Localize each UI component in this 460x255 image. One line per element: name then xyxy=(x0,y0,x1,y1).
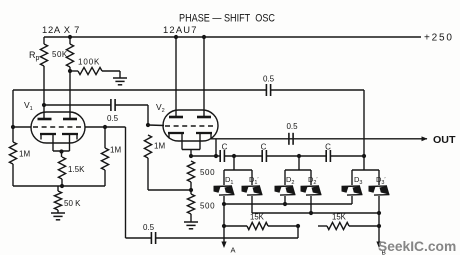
V1 grid dashed xyxy=(33,126,83,128)
svg-text:15K: 15K xyxy=(250,213,265,222)
wire D1 to A bus xyxy=(223,196,225,204)
wire D1p to B bus xyxy=(251,196,253,213)
capacitor C2 xyxy=(262,150,266,162)
label 50K cathode xyxy=(64,199,81,208)
V2 plate a xyxy=(169,35,183,117)
arrow node B xyxy=(376,242,385,255)
label 15K left xyxy=(250,213,265,222)
wire D2 to A bus xyxy=(283,196,287,206)
V2 cathode b xyxy=(196,133,212,150)
svg-text:SeekIC.com: SeekIC.com xyxy=(378,239,456,254)
wire bottom to 15K mid xyxy=(126,226,299,238)
label C2 xyxy=(261,143,267,152)
resistor 1.5K xyxy=(58,157,65,186)
wire A vertical xyxy=(222,204,226,243)
label tube 12AX7 xyxy=(42,24,80,35)
diode D1p xyxy=(242,186,263,195)
wire feedback top xyxy=(13,90,364,170)
svg-text:C: C xyxy=(325,143,331,152)
svg-text:A: A xyxy=(231,246,236,255)
svg-text:50 K: 50 K xyxy=(64,199,81,208)
resistor 1M grid b xyxy=(101,127,108,186)
resistor 50K cathode xyxy=(54,186,61,213)
tube V1 envelope xyxy=(31,112,85,143)
resistor 500 upper xyxy=(187,161,194,190)
label +250 xyxy=(424,33,454,44)
ground for 50K xyxy=(51,213,65,220)
svg-text:500: 500 xyxy=(200,168,215,177)
svg-text:500: 500 xyxy=(200,202,215,211)
resistor 100K xyxy=(70,67,120,74)
label D2p xyxy=(308,175,317,186)
arrow OUT xyxy=(422,136,428,141)
label 1.5K xyxy=(68,165,85,174)
wire cathode bus xyxy=(13,185,105,187)
wire V1 grid-b down xyxy=(125,127,127,238)
V2 grid dashed xyxy=(165,125,216,127)
label 15K right xyxy=(332,213,347,222)
wire bridge D2 xyxy=(285,156,311,185)
label C1 xyxy=(222,143,228,152)
capacitor 0.5 feedback xyxy=(266,84,270,96)
svg-text:1M: 1M xyxy=(110,146,121,155)
label tube 12AU7 xyxy=(163,24,198,35)
wire bridge D1 xyxy=(224,156,252,185)
wire bridge D3 xyxy=(352,170,379,185)
V1 plate a xyxy=(38,105,52,119)
node ladder 1 xyxy=(232,154,236,158)
tube V2 envelope xyxy=(163,110,218,141)
label 500 lower xyxy=(200,202,215,211)
label D3p xyxy=(376,175,385,186)
V2 plate b xyxy=(197,35,211,117)
wire cap to V2 grid xyxy=(115,105,148,125)
V1 cathode a xyxy=(40,134,56,151)
wire 1M to 500 junction xyxy=(148,189,191,191)
wire B vertical xyxy=(377,213,381,243)
svg-text:100K: 100K xyxy=(78,58,100,67)
svg-text:12AU7: 12AU7 xyxy=(163,24,198,35)
node ladder 3 xyxy=(362,154,366,158)
svg-text:+250: +250 xyxy=(424,33,454,44)
label D1p xyxy=(249,175,258,186)
svg-text:1M: 1M xyxy=(19,150,30,159)
V1 grid lead left xyxy=(11,125,31,129)
capacitor 0.5 output xyxy=(289,133,293,145)
node V2 grid xyxy=(146,123,150,127)
svg-text:PHASE — SHIFT OSC: PHASE — SHIFT OSC xyxy=(179,13,275,25)
resistor 500 lower xyxy=(187,190,194,222)
node 15K mid xyxy=(296,224,300,228)
V1 cathode b xyxy=(62,134,78,151)
ground for 100K xyxy=(113,71,127,85)
node plate V1a / junction xyxy=(42,103,46,107)
node cathode tap xyxy=(189,154,193,158)
label 0.5 bottom xyxy=(143,223,155,232)
wire plate V1a to cap xyxy=(44,104,111,106)
svg-text:C: C xyxy=(222,143,228,152)
label 1M b xyxy=(110,146,121,155)
wire OUT drop xyxy=(214,139,218,158)
resistor 15K left xyxy=(247,222,268,229)
V2 grid lead xyxy=(148,124,164,127)
label D2 xyxy=(286,175,294,186)
label Rp xyxy=(29,50,40,62)
svg-text:1M: 1M xyxy=(154,142,165,151)
V2 cathode common xyxy=(182,150,200,157)
ground for 500 xyxy=(184,222,198,229)
V1 cathode common xyxy=(53,149,70,157)
label 1M c xyxy=(154,142,165,151)
label C3 xyxy=(325,143,331,152)
node 500 junction xyxy=(189,188,193,192)
wire B bus xyxy=(252,211,381,215)
diode D1 xyxy=(214,186,235,195)
node 50K/100K junction xyxy=(68,69,72,73)
label 0.5 feedback xyxy=(263,75,275,84)
svg-text:1.5K: 1.5K xyxy=(68,165,85,174)
svg-text:OUT: OUT xyxy=(433,134,456,146)
diode D2p xyxy=(301,186,322,195)
label 1M a xyxy=(19,150,30,159)
label 100K xyxy=(78,58,100,67)
label 50K xyxy=(52,50,68,59)
title PHASE-SHIFT OSC xyxy=(179,13,275,25)
svg-text:0.5: 0.5 xyxy=(143,223,155,232)
resistor 50K (plate load) xyxy=(66,35,73,119)
wire D2p to B bus xyxy=(309,196,313,215)
V1 plate b xyxy=(63,118,77,121)
capacitor C3 xyxy=(326,150,330,162)
label V1 xyxy=(24,100,33,112)
svg-text:50K: 50K xyxy=(52,50,68,59)
svg-text:C: C xyxy=(261,143,267,152)
label 0.5 output xyxy=(286,122,298,131)
label D3 xyxy=(354,175,362,186)
wire A bus xyxy=(222,202,352,206)
diode D2 xyxy=(275,186,296,195)
resistor 1M grid a xyxy=(9,127,16,186)
svg-text:0.5: 0.5 xyxy=(286,122,298,131)
svg-text:0.5: 0.5 xyxy=(107,114,119,123)
capacitor 0.5 bottom xyxy=(151,232,155,244)
wire B+ rail xyxy=(44,36,421,38)
wire D3p to B bus xyxy=(378,196,380,213)
label 500 upper xyxy=(200,168,215,177)
watermark SeekIC.com xyxy=(378,239,456,254)
V1 grid lead right xyxy=(85,125,126,129)
label D1 xyxy=(225,175,233,186)
wire 15K line xyxy=(224,225,379,227)
wire C row xyxy=(191,155,364,157)
label OUT xyxy=(433,134,456,146)
resistor Rp xyxy=(40,37,47,105)
label V2 xyxy=(156,102,165,114)
capacitor C1 xyxy=(220,150,224,162)
label 0.5 interstage xyxy=(107,114,119,123)
svg-text:0.5: 0.5 xyxy=(263,75,275,84)
V2 cathode a xyxy=(168,133,184,150)
wire D3 to A bus xyxy=(351,196,353,204)
resistor 1M V2 grid xyxy=(144,135,151,190)
arrow node A xyxy=(221,242,235,255)
svg-text:12A X 7: 12A X 7 xyxy=(42,24,80,35)
svg-text:15K: 15K xyxy=(332,213,347,222)
node ladder 2 xyxy=(297,154,301,158)
diode D3 xyxy=(342,186,363,195)
capacitor 0.5 interstage xyxy=(111,99,115,111)
diode D3p xyxy=(369,186,390,195)
node cathode junction xyxy=(60,184,64,188)
resistor 15K right xyxy=(327,222,349,229)
wire cathode to OUT xyxy=(211,138,427,140)
